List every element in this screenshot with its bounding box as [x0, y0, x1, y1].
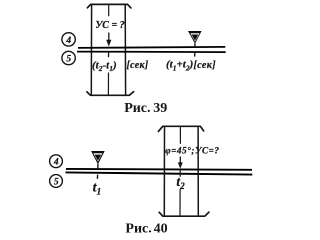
- box U39 left edge: [90, 5, 92, 95]
- arrow A39: [108, 33, 110, 42]
- box U40 bottom cap: [159, 212, 209, 216]
- wire top (Fig.39): [78, 47, 225, 48]
- centerline segment 1 (Fig.40): [179, 127, 181, 144]
- svg-text:40: 40: [154, 221, 168, 236]
- svg-text:5: 5: [54, 177, 59, 187]
- wire bottom (Fig.39): [77, 51, 226, 54]
- box U40 top cap: [158, 126, 203, 131]
- centerline top segment: [108, 5, 110, 16]
- node 5 (Fig.40): [50, 175, 63, 188]
- svg-text:5: 5: [66, 54, 71, 64]
- marker stem (Fig.39): [194, 43, 196, 47]
- svg-text:[сек]: [сек]: [127, 60, 149, 71]
- svg-text:4: 4: [65, 36, 71, 46]
- node 4 (Fig.40): [50, 155, 63, 168]
- arrow A40: [179, 157, 181, 164]
- svg-text:УС = ?: УС = ?: [95, 20, 124, 31]
- svg-text:Рис.: Рис.: [124, 101, 150, 116]
- marker triangle (Fig.39): [188, 31, 202, 44]
- svg-text:[сек]: [сек]: [194, 60, 217, 71]
- svg-text:(t1+t2): (t1+t2): [166, 59, 193, 73]
- box U40 left edge: [163, 126, 165, 216]
- wire top (Fig.40): [66, 168, 252, 171]
- svg-text:φ=45°;УС=?: φ=45°;УС=?: [165, 146, 219, 156]
- centerline segment 3 (Fig.40): [179, 189, 181, 216]
- wire bottom (Fig.40): [66, 172, 253, 174]
- tick below wires: [108, 52, 110, 57]
- box U39 top cap: [87, 4, 130, 8]
- marker triangle (Fig.40): [91, 151, 105, 164]
- centerline through wires (Fig.40): [179, 169, 181, 177]
- centerline bottom segment: [107, 73, 109, 95]
- marker stem (Fig.40): [97, 164, 99, 169]
- node 5 (Fig.39): [62, 51, 75, 64]
- svg-text:Рис.: Рис.: [125, 221, 151, 236]
- box U40 right edge: [197, 126, 199, 216]
- svg-text:4: 4: [53, 158, 59, 168]
- marker tick below wires (Fig.39): [194, 53, 196, 57]
- node 4 (Fig.39): [62, 33, 75, 46]
- box U39 bottom cap: [87, 92, 134, 96]
- svg-text:39: 39: [153, 101, 167, 116]
- svg-text:t1: t1: [93, 181, 102, 198]
- svg-text:(t2-t1): (t2-t1): [92, 60, 117, 74]
- marker tick below wires (Fig.40): [96, 175, 98, 179]
- box U39 right edge: [124, 5, 126, 95]
